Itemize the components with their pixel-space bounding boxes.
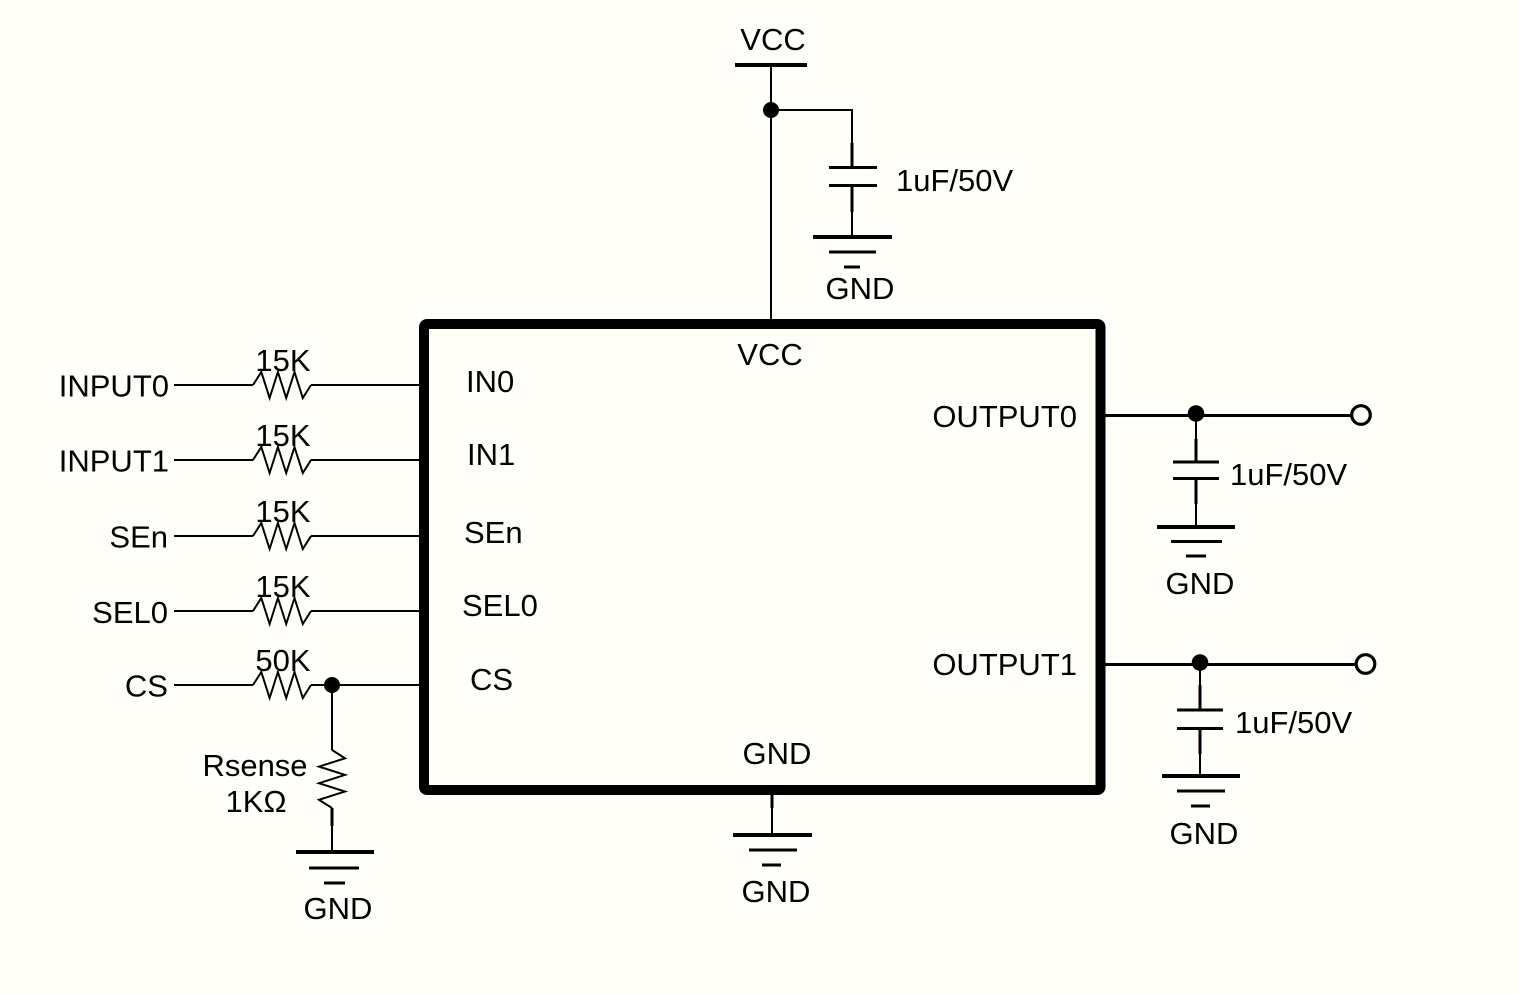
wire R2 to IN1 [311, 459, 424, 461]
resistor R4 15K [253, 569, 311, 624]
ground GND (below C2) [1157, 527, 1235, 601]
svg-text:VCC: VCC [737, 337, 802, 372]
svg-text:Rsense: Rsense [202, 748, 307, 783]
svg-text:1uF/50V: 1uF/50V [1230, 457, 1348, 492]
svg-text:INPUT0: INPUT0 [59, 369, 169, 404]
wire R1 to IN0 [311, 384, 424, 386]
node junction OUTPUT0 [1188, 405, 1205, 422]
ground GND (below C3) [1162, 776, 1240, 851]
capacitor C1 1uF/50V [829, 163, 1014, 198]
wire OUTPUT1 [1100, 663, 1356, 666]
IC U1 body [424, 324, 1101, 790]
svg-text:SEn: SEn [109, 520, 168, 555]
resistor Rsense 1K [202, 748, 345, 819]
node junction on VCC wire [763, 102, 779, 118]
wire CS to R5 [174, 684, 253, 686]
svg-text:GND: GND [1166, 566, 1235, 601]
svg-text:15K: 15K [255, 569, 310, 604]
svg-text:GND: GND [742, 874, 811, 909]
wire junction to Rsense [331, 685, 333, 750]
wire R5 to CS pin [311, 684, 424, 686]
wire junction to C3 [1199, 664, 1201, 687]
svg-text:1KΩ: 1KΩ [225, 784, 286, 819]
wire R3 to SEn pin [311, 535, 424, 537]
terminal OUTPUT1 [1356, 655, 1375, 674]
wire junction to C2 [1195, 415, 1197, 441]
resistor R5 50K [253, 643, 311, 698]
svg-text:IN1: IN1 [467, 437, 515, 472]
ground GND (below Rsense) [296, 852, 374, 926]
svg-text:VCC: VCC [740, 22, 805, 57]
svg-text:SEL0: SEL0 [92, 595, 168, 630]
wire SEL0 to R4 [174, 610, 253, 612]
power symbol VCC [735, 22, 807, 65]
svg-text:CS: CS [125, 669, 168, 704]
wire SEn to R3 [174, 535, 253, 537]
node junction CS [324, 677, 340, 693]
svg-text:GND: GND [1170, 816, 1239, 851]
svg-text:GND: GND [743, 736, 812, 771]
capacitor C3 1uF/50V [1177, 705, 1353, 740]
wire C3 to ground [1199, 730, 1202, 754]
ground GND (below IC) [733, 835, 812, 909]
node junction OUTPUT1 [1192, 654, 1209, 671]
wire R4 to SEL0 pin [311, 610, 424, 612]
wire Rsense to ground [331, 808, 334, 826]
wire VCC bar to IC VCC pin [770, 67, 772, 324]
ground GND (below C1) [813, 237, 894, 306]
wire INPUT0 to R1 [174, 384, 253, 386]
capacitor C2 1uF/50V [1173, 457, 1348, 492]
wire IC GND pin to ground [771, 790, 774, 808]
wire OUTPUT0 [1100, 414, 1352, 417]
svg-text:OUTPUT1: OUTPUT1 [932, 647, 1077, 682]
svg-text:1uF/50V: 1uF/50V [896, 163, 1014, 198]
svg-text:SEn: SEn [464, 515, 523, 550]
svg-text:50K: 50K [255, 643, 310, 678]
resistor R2 15K [253, 418, 311, 473]
svg-text:CS: CS [470, 662, 513, 697]
svg-text:15K: 15K [255, 418, 310, 453]
wire C1 to ground [851, 187, 854, 212]
svg-text:IN0: IN0 [466, 364, 514, 399]
svg-text:OUTPUT0: OUTPUT0 [932, 399, 1077, 434]
resistor R3 15K [253, 494, 311, 549]
svg-text:INPUT1: INPUT1 [59, 444, 169, 479]
svg-text:1uF/50V: 1uF/50V [1235, 705, 1353, 740]
svg-text:15K: 15K [255, 343, 310, 378]
terminal OUTPUT0 [1352, 406, 1371, 425]
svg-text:GND: GND [304, 891, 373, 926]
svg-text:SEL0: SEL0 [462, 588, 538, 623]
svg-text:GND: GND [826, 271, 895, 306]
wire C2 to ground [1195, 480, 1198, 504]
wire junction to capacitor C1 [771, 110, 852, 145]
svg-text:15K: 15K [255, 494, 310, 529]
resistor R1 15K [253, 343, 311, 398]
wire INPUT1 to R2 [174, 459, 253, 461]
